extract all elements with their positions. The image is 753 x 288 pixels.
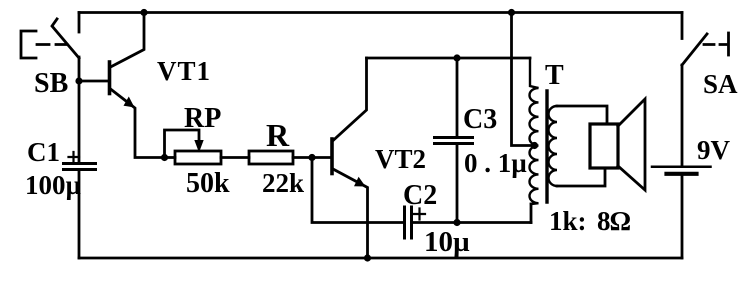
transformer T secondary winding [549, 106, 558, 186]
node rail tap junction [508, 9, 515, 16]
svg-text:R: R [266, 117, 290, 153]
transistor VT2 emitter arrow [354, 177, 366, 187]
node collector-rail junction [140, 9, 147, 16]
transformer T primary winding [530, 58, 539, 204]
svg-text:VT2: VT2 [375, 144, 426, 174]
switch SA actuator bar [727, 33, 730, 55]
switch SB lever [52, 19, 79, 58]
svg-text:RP: RP [184, 103, 221, 134]
potentiometer RP wiper arrow [194, 140, 203, 153]
wire C2 to transformer [413, 221, 531, 224]
speaker BL body [590, 124, 618, 168]
node base junction [308, 154, 315, 161]
potentiometer RP wiper link [165, 130, 200, 156]
wire right rail lower [681, 175, 684, 258]
svg-text:1k:8Ω: 1k:8Ω [549, 206, 631, 236]
svg-text:100µ: 100µ [25, 170, 82, 200]
svg-text:C3: C3 [463, 104, 497, 135]
svg-text:22k: 22k [262, 168, 304, 198]
wire bottom rail [79, 257, 682, 260]
svg-text:9V: 9V [697, 135, 731, 165]
switch SA dashed link [704, 43, 726, 46]
wire left rail lower [78, 170, 81, 258]
svg-text:0 . 1µ: 0 . 1µ [464, 148, 527, 178]
wire right rail upper stub [681, 13, 684, 39]
svg-text:T: T [545, 60, 564, 91]
wire VT2 collector rail [367, 57, 531, 60]
node C3 top junction [453, 54, 460, 61]
svg-text:C1: C1 [27, 137, 60, 167]
battery GB negative plate [667, 172, 697, 176]
wire RP left lead [165, 156, 176, 159]
capacitor C1 plates [64, 164, 96, 170]
wire left rail [78, 57, 81, 163]
node SB junction [75, 77, 82, 84]
capacitor C2 plates [405, 207, 412, 238]
transistor VT1 collector [111, 13, 145, 68]
wire top rail [79, 11, 682, 14]
capacitor C3 top lead [456, 58, 459, 136]
transistor VT2 emitter [333, 169, 368, 258]
switch SB dashed link [37, 43, 67, 46]
transformer T core [545, 91, 548, 202]
transistor Q VT2 base bar [330, 139, 334, 174]
svg-text:50k: 50k [186, 168, 230, 199]
node C3 bottom junction [453, 219, 460, 226]
transistor VT1 emitter [111, 89, 164, 158]
transistor VT2 collector [333, 58, 367, 141]
svg-text:C2: C2 [403, 180, 437, 211]
svg-text:SA: SA [703, 69, 738, 99]
transistor VT1 emitter arrow [124, 97, 135, 108]
node primary tap junction [531, 142, 538, 149]
wire left rail upper stub [78, 13, 81, 33]
wire secondary top to speaker [557, 106, 607, 124]
wire right rail [681, 65, 684, 165]
potentiometer RP body [175, 151, 221, 164]
switch SA lever [682, 34, 707, 65]
node emitter-RP junction [161, 154, 168, 161]
resistor R body [249, 151, 293, 164]
wire secondary bottom to speaker [557, 168, 605, 186]
svg-text:SB: SB [34, 68, 68, 99]
battery GB positive plate [652, 166, 711, 169]
node emitter-ground junction [364, 254, 371, 261]
capacitor C3 plates [435, 138, 473, 144]
switch SB pushbutton bracket [21, 31, 36, 58]
capacitor C3 bottom lead [456, 145, 459, 223]
capacitor C1 plus sign [69, 152, 80, 162]
speaker BL horn [618, 99, 645, 190]
wire RP to R [221, 156, 249, 159]
transistor Q VT1 base bar [108, 62, 112, 94]
svg-text:10µ: 10µ [424, 226, 470, 258]
capacitor C2 plus sign [414, 209, 425, 220]
wire centre tap from rail [512, 13, 537, 146]
wire transformer primary bottom lead [530, 204, 533, 223]
wire base to C2 [312, 158, 402, 223]
wire R to VT2 base [293, 156, 331, 159]
wire VT1 base [79, 80, 109, 83]
svg-text:VT1: VT1 [157, 56, 211, 86]
